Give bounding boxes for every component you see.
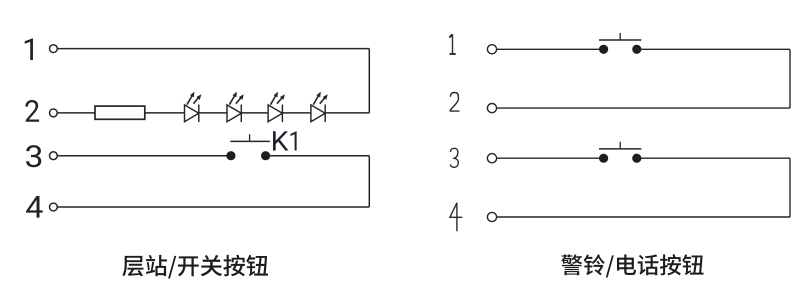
terminal circle pin 2 (left) xyxy=(50,109,58,117)
wire: left bus vertical row3-row4 xyxy=(368,156,370,207)
wire: left pin 2 to resistor R1 xyxy=(58,112,96,114)
terminal circle pin 3 (left) xyxy=(50,152,58,160)
wire: resistor R1 to LED D1 xyxy=(145,112,185,114)
terminal label 4 (left block pin 4) xyxy=(26,196,43,218)
wire: LED D1 to LED D2 xyxy=(199,112,227,114)
wire: LED D3 to LED D4 xyxy=(283,112,311,114)
push-button switch K1 bridge bar xyxy=(230,140,270,142)
push-button switch K1 contact dot (left) xyxy=(226,151,235,160)
wire: button S2 to right bus xyxy=(637,157,790,159)
terminal label 2 (left block pin 2) xyxy=(25,100,39,122)
terminal circle pin 4 (left) xyxy=(50,203,58,211)
wire: right pin 1 to button S1 xyxy=(497,48,604,50)
wire: LED D2 to LED D3 xyxy=(242,112,269,114)
wire: right bus vertical row3-row4 xyxy=(789,158,791,217)
terminal label 3 (left block pin 3) xyxy=(26,145,41,167)
terminal circle pin 3 (right) xyxy=(487,154,496,163)
terminal label 4 (right block pin 4) xyxy=(450,203,462,231)
push-button S2 (telephone) xyxy=(599,142,641,163)
wire: right pin 3 to button S2 xyxy=(497,157,604,159)
wire: left pin 4 to right bus xyxy=(58,206,370,208)
terminal label 2 (right block pin 2) xyxy=(450,93,459,112)
terminal circle pin 2 (right) xyxy=(487,104,496,113)
LED D1 xyxy=(185,92,202,123)
wire: left pin 3 to switch K1 xyxy=(58,155,228,157)
push-button switch K1 actuator stem xyxy=(249,134,251,141)
caption text "警铃/电话按钮" xyxy=(561,254,703,277)
resistor R1 xyxy=(95,106,145,119)
wire: right bus vertical row1-row2 xyxy=(789,49,791,108)
wire: LED D4 to right bus xyxy=(325,112,369,114)
wire: right pin 4 to right bus xyxy=(497,216,790,218)
push-button switch K1 contact dot (right) xyxy=(261,151,270,160)
terminal label 1 (left block pin 1) xyxy=(25,38,33,60)
wire: left pin 1 to right bus xyxy=(58,48,370,50)
LED D3 xyxy=(268,92,285,123)
wire: button S1 to right bus xyxy=(637,48,790,50)
terminal label 3 (right block pin 3) xyxy=(450,148,458,167)
push-button S1 (alarm bell) xyxy=(599,33,641,54)
label K1 xyxy=(273,131,289,150)
LED D4 xyxy=(311,92,328,123)
caption text "层站/开关按钮" xyxy=(122,255,268,279)
LED D2 xyxy=(227,92,244,123)
terminal label 1 (right block pin 1) xyxy=(449,34,455,54)
wire: switch K1 to right bus xyxy=(266,155,370,157)
terminal circle pin 1 (left) xyxy=(50,45,58,53)
wire: right pin 2 to right bus xyxy=(497,107,790,109)
terminal circle pin 1 (right) xyxy=(487,45,496,54)
wire: left bus vertical row1-row2 xyxy=(368,49,370,113)
terminal circle pin 4 (right) xyxy=(487,212,496,221)
